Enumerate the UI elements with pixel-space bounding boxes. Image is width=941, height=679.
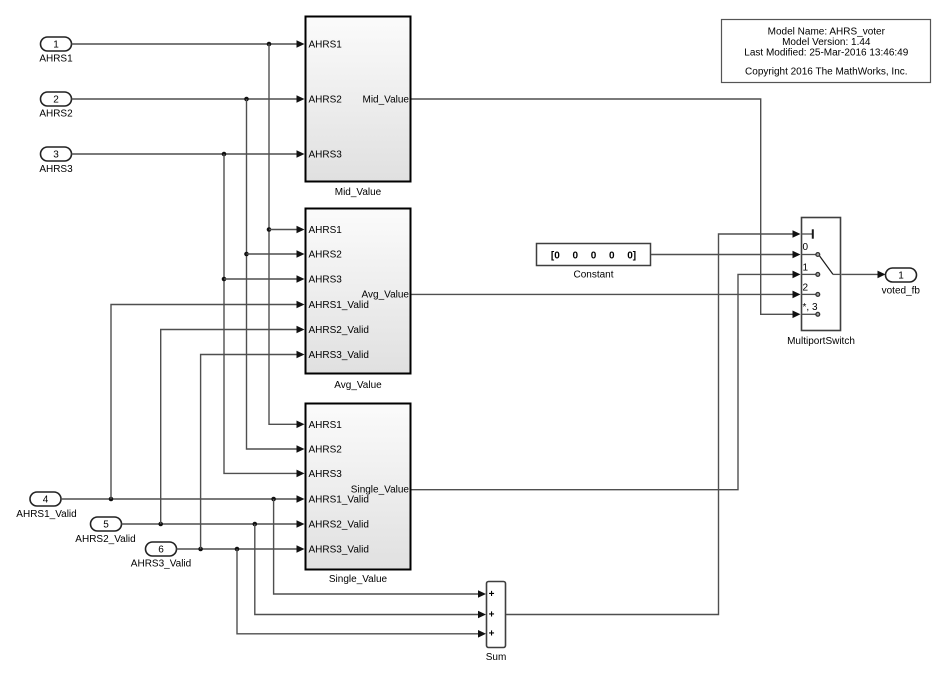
svg-text:MultiportSwitch: MultiportSwitch [787,336,855,347]
inport 6 AHRS3_Valid [131,542,191,570]
svg-text:AHRS2: AHRS2 [39,108,73,119]
svg-text:Avg_Value: Avg_Value [362,290,410,301]
svg-text:Mid_Value: Mid_Value [335,187,382,198]
svg-text:1: 1 [898,271,904,282]
subsystem Avg_Value [306,209,411,392]
svg-text:Copyright 2016 The MathWorks,: Copyright 2016 The MathWorks, Inc. [745,66,908,77]
wire AHRS3 branch to Avg.AHRS3 [224,275,305,283]
annotation model info box [722,20,931,83]
svg-text:AHRS3: AHRS3 [309,469,343,480]
wire port2 to Mid.AHRS2 [72,95,305,103]
junction on AHRS1 wire [267,42,272,47]
wire AHRS3 bus down to Single.AHRS3 [224,154,305,477]
constant block [0 0 0 0 0] [537,244,651,281]
svg-text:AHRS1_Valid: AHRS1_Valid [309,495,369,506]
svg-text:0: 0 [803,242,809,253]
svg-text:+: + [489,629,495,640]
svg-text:AHRS1: AHRS1 [39,53,73,64]
wire port4 to Single.AHRS1_Valid [61,495,305,503]
junction port4 drop [271,497,276,502]
wire port6 to Single.AHRS3_Valid [177,545,305,553]
wire AHRS2 branch to Avg.AHRS2 [247,250,305,258]
svg-text:AHRS3: AHRS3 [39,164,73,175]
wire port5 drop to Sum input 2 [255,524,486,618]
svg-text:+: + [489,609,495,620]
wire port4 drop to Sum input 1 [274,499,486,598]
svg-text:AHRS1_Valid: AHRS1_Valid [16,509,76,520]
junction port5 riser [158,522,163,527]
svg-text:1: 1 [53,40,59,51]
svg-text:AHRS3_Valid: AHRS3_Valid [309,350,369,361]
wire Sum output to mps control port [506,230,801,614]
junction on AHRS2 wire [244,97,249,102]
wire AHRS1 bus down to Single.AHRS1 [269,44,305,428]
mps port 1 stub [801,262,820,276]
svg-text:AHRS1: AHRS1 [309,225,343,236]
svg-text:1: 1 [803,262,809,273]
inport 1 AHRS1 [39,37,73,64]
svg-text:Single_Value: Single_Value [329,574,388,585]
wire port5 to Single.AHRS2_Valid [122,520,305,528]
junction port5 drop [253,522,258,527]
wire port6 drop to Sum input 3 [237,549,486,638]
inport 2 AHRS2 [39,92,73,119]
svg-text:AHRS3: AHRS3 [309,150,343,161]
svg-text:AHRS2_Valid: AHRS2_Valid [75,534,135,545]
inport 3 AHRS3 [39,147,73,175]
junction port4 riser [109,497,114,502]
wire AHRS1 branch to Avg.AHRS1 [269,226,305,234]
svg-text:5: 5 [103,520,109,531]
svg-text:3: 3 [53,150,59,161]
mps port *,3 stub [801,302,820,316]
svg-text:AHRS2: AHRS2 [309,445,343,456]
wire Avg_Value output to mps port 2 [412,291,801,299]
svg-text:Constant: Constant [573,269,613,280]
svg-text:AHRS3: AHRS3 [309,275,343,286]
outport 1 voted_fb [882,268,921,297]
junction AHRS2 bus at Avg [244,252,249,257]
svg-text:Single_Value: Single_Value [351,485,410,496]
wire port1 to Mid.AHRS1 [72,40,305,48]
mps switch lever [820,256,841,274]
svg-text:AHRS1_Valid: AHRS1_Valid [309,300,369,311]
svg-text:[0 0 0 0 0]: [0 0 0 0 0] [551,251,636,262]
mps port 0 stub [801,242,820,256]
wire mps output to outport voted_fb [842,271,886,279]
svg-text:AHRS3_Valid: AHRS3_Valid [131,559,191,570]
svg-text:2: 2 [803,282,809,293]
svg-text:voted_fb: voted_fb [882,286,921,297]
junction on AHRS3 wire [222,152,227,157]
svg-text:AHRS2_Valid: AHRS2_Valid [309,520,369,531]
svg-text:AHRS1: AHRS1 [309,420,343,431]
wire Single_Value output to mps port 1 [412,271,801,490]
svg-text:AHRS1: AHRS1 [309,40,343,51]
wire port5 riser to Avg.AHRS2_Valid [161,326,305,524]
wire AHRS2 bus down to Single.AHRS2 [247,99,305,453]
svg-text:+: + [489,589,495,600]
mps port 2 stub [801,282,820,296]
svg-text:AHRS2: AHRS2 [309,95,343,106]
wire port4 riser to Avg.AHRS1_Valid [111,301,305,499]
svg-text:Last Modified: 25-Mar-2016 13:: Last Modified: 25-Mar-2016 13:46:49 [744,47,908,58]
multiport switch block [787,218,855,348]
wire Constant output to mps port 0 [651,251,801,259]
wire port3 to Mid.AHRS3 [72,150,305,158]
wire Mid_Value output to mps port *,3 [412,99,801,318]
svg-text:AHRS2_Valid: AHRS2_Valid [309,325,369,336]
svg-text:AHRS3_Valid: AHRS3_Valid [309,545,369,556]
inport 4 AHRS1_Valid [16,492,76,520]
junction AHRS3 bus at Avg [222,277,227,282]
svg-text:AHRS2: AHRS2 [309,250,343,261]
inport 5 AHRS2_Valid [75,517,135,545]
mps control port stub [801,229,813,238]
subsystem Single_Value [306,404,411,586]
svg-text:*, 3: *, 3 [803,302,818,313]
sum block [486,582,507,664]
svg-text:2: 2 [53,95,59,106]
svg-text:6: 6 [158,545,164,556]
wire port6 riser to Avg.AHRS3_Valid [201,351,305,549]
svg-text:Sum: Sum [486,652,507,663]
svg-text:Mid_Value: Mid_Value [362,95,409,106]
subsystem Mid_Value [306,17,411,198]
svg-text:Avg_Value: Avg_Value [334,380,382,391]
junction port6 drop [235,547,240,552]
junction port6 riser [198,547,203,552]
junction AHRS1 bus at Avg [267,227,272,232]
svg-text:4: 4 [43,495,49,506]
